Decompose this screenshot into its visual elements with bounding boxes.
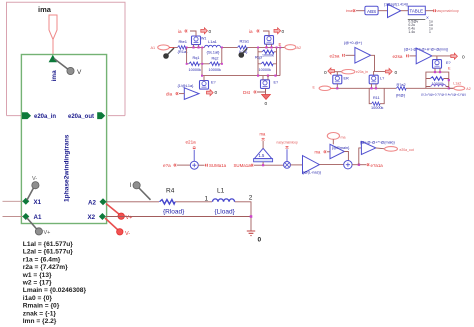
oval e20a_out [376,147,414,152]
svg-text:0: 0 [282,29,285,35]
net e20a_in arrow left 0 [324,68,368,76]
block ABS [365,6,378,15]
svg-text:L1a1: L1a1 [208,39,218,44]
port dia [166,92,184,97]
svg-text:2: 2 [249,195,253,202]
summer circle 1 [190,161,198,169]
svg-text:ma: ma [315,150,321,155]
junction dots W1 [192,46,194,48]
svg-text:{1/@L1a}: {1/@L1a} [178,84,195,88]
svg-text:{@+0-@+): {@+0-@+) [344,41,363,45]
svg-text:Lmain = {0.0246308}: Lmain = {0.0246308} [23,287,87,294]
probe V- at X1 [27,176,39,200]
svg-text:e?a: e?a [163,163,171,168]
svg-text:V+: V+ [44,230,51,236]
wire E2 top stub [203,76,205,81]
svg-text:R4: R4 [166,188,175,195]
svg-text:1: 1 [205,195,209,202]
svg-text:V: V [77,69,82,76]
ground arrow 0 (tri2) [451,53,465,60]
svg-text:R11: R11 [373,96,380,100]
svg-text:E?: E? [274,81,279,85]
ground arrow 0 (W2) [274,28,285,35]
svg-text:10000k: 10000k [259,68,272,72]
port ma input [315,150,331,155]
inductor L (RL box) [431,85,446,87]
resistor Rq1 [189,62,200,66]
port ima [346,8,355,13]
svg-text:e20a_out: e20a_out [400,148,414,152]
svg-text:0: 0 [258,237,262,244]
resistor Rq3 [262,50,274,54]
wire triangle1 out [371,55,375,71]
probe V- at X2 (red) [105,218,130,237]
probe V+ at A1 [27,218,50,236]
svg-text:Imn = {2.2}: Imn = {2.2} [23,318,57,325]
wire amp to summer2 [319,164,343,166]
wire X2 row [106,216,251,218]
svg-text:R?a2: R?a2 [397,83,406,87]
summer circle 2 [344,161,352,169]
svg-text:0: 0 [462,55,465,61]
wire W1 stubs [190,31,199,47]
limiter block [254,148,273,162]
wire Rq network left [187,47,222,75]
probe I at A2 wire [130,182,151,200]
port nasycmainloop [434,9,459,13]
svg-text:10000k: 10000k [262,53,274,57]
svg-text:V-: V- [32,176,37,182]
svg-text:{1@sqrt(1.414)}: {1@sqrt(1.414)} [384,2,409,6]
svg-text:r1a = {6.4m}: r1a = {6.4m} [23,256,61,263]
wire limiter to mult [262,162,284,165]
svg-text:{@+1-@+0-@+H^@+@(mm)}: {@+1-@+0-@+H^@+@(mm)} [404,47,449,51]
svg-text:SUMa1a: SUMa1a [234,163,252,168]
svg-text:10000k: 10000k [371,106,384,110]
inductor L1a1 [205,45,221,47]
svg-text:nasycmainloop: nasycmainloop [277,141,298,145]
ground 0 [247,231,255,236]
wire [356,10,365,12]
svg-text:L1: L1 [217,188,225,195]
svg-text:A1: A1 [34,214,42,221]
svg-text:L?: L? [380,77,384,81]
ground arrow 0 (W1) [201,28,212,35]
wire A2 row [107,202,252,231]
port A2 [88,198,107,206]
wire Rq network right [202,47,280,75]
port X2 [88,213,106,221]
svg-text:A2: A2 [466,87,470,91]
svg-text:1.5: 1.5 [259,153,265,158]
source W1 box [192,36,201,45]
svg-text:Rq1: Rq1 [193,56,200,60]
svg-text:X1: X1 [34,199,42,206]
svg-text:W1: W1 [201,37,206,41]
amp 1/Lnas triangle [303,156,322,175]
svg-text:e2sa: e2sa [330,54,340,59]
svg-text:1phase2windingtrans: 1phase2windingtrans [63,134,70,202]
port ima (top of block) [49,55,57,62]
svg-text:w2 = {17}: w2 = {17} [22,280,52,287]
wire pink outer loop [7,2,126,115]
svg-text:ABS: ABS [367,9,376,14]
resistor Rte2 [396,87,406,91]
wire W2 stubs [263,31,272,47]
probe at R2a1 (dark) [239,49,247,58]
svg-text:0: 0 [215,90,218,96]
port Dst [243,88,266,94]
port e2a [163,163,190,168]
wire triangle2 out [432,56,451,59]
svg-text:ia: ia [249,29,253,34]
junction dots main wire [186,47,281,65]
inductor L1 [213,199,235,202]
svg-text:Rq2: Rq2 [212,57,219,61]
svg-text:ma: ma [341,135,346,139]
oval ma top [327,133,345,145]
svg-text:e20a_in: e20a_in [34,114,56,120]
svg-text:nasycmainloop: nasycmainloop [436,9,459,13]
port e20a_out [97,112,105,119]
port SUMa1a out [198,163,226,168]
svg-text:w1 = {13}: w1 = {13} [22,272,52,279]
gain e2sa triangle 1 [330,41,371,63]
E3 stubs to RL box [435,68,440,72]
svg-text:SUMa1a: SUMa1a [209,163,227,168]
wire [378,10,387,12]
svg-text:e20a_in: e20a_in [356,70,368,74]
amp Rmain triangle [330,144,350,158]
wire E1 stubs [263,76,268,95]
port nasycmainloop top input [277,141,298,162]
svg-text:E?: E? [446,61,451,65]
junction dots bottom wire [257,75,259,77]
svg-text:0: 0 [209,29,212,35]
svg-text:10000k: 10000k [189,68,202,72]
multiplier circle [284,162,291,169]
port e20a_in [22,112,31,119]
svg-text:ia: ia [178,29,182,34]
gain triangle sqrt [384,2,409,17]
svg-text:X2: X2 [88,214,96,221]
port A1 oval [151,45,175,50]
svg-text:1: 1 [429,30,431,34]
junction dots RL [434,71,436,73]
resistor R4 [160,200,176,204]
svg-text:znak = {-1}: znak = {-1} [23,310,57,317]
ground arrow 0 (E5) [386,69,398,76]
svg-text:ma: ma [260,132,266,137]
svg-text:Dst: Dst [243,90,251,95]
junction dots E5 [370,87,372,89]
probe at A1 (dark) [164,48,175,59]
svg-text:Rq3: Rq3 [255,56,262,60]
svg-text:L1al = {61.577u}: L1al = {61.577u} [23,241,73,248]
svg-text:10000k: 10000k [209,68,222,72]
svg-text:ER: ER [344,77,350,81]
svg-text:E: E [279,42,282,47]
port A1 [22,213,42,221]
wire left A1 [3,216,24,218]
svg-text:e20a_out: e20a_out [68,114,94,120]
wire summer2 out [352,164,366,166]
wire main row [334,87,454,89]
probe V+ at A2 (red) [106,204,132,222]
port X1 [22,198,41,206]
ground arrow 0 (E2) [207,90,218,96]
svg-text:e21a: e21a [186,139,197,144]
probe V at top port [54,59,82,77]
wire up to emak triangle [359,148,362,165]
port A2 oval right [449,81,471,91]
svg-text:E?: E? [211,81,216,85]
svg-text:ima: ima [346,8,353,13]
resistor R11 branch [369,88,384,103]
hierarchical block 1phase2windingtrans [21,55,106,224]
gain e2sa triangle 2 [393,47,450,64]
svg-text:A1: A1 [151,46,156,50]
port in oval [319,86,334,90]
svg-text:ima: ima [38,5,52,14]
svg-text:V-: V- [125,231,130,237]
svg-text:L2al = {61.577u}: L2al = {61.577u} [23,249,73,256]
svg-text:e?a1a: e?a1a [371,163,384,168]
wire [401,10,409,12]
block TABLE [408,6,425,15]
svg-text:V+: V+ [126,215,133,221]
RL parallel box wires [426,72,449,88]
resistor R2a1 [238,46,248,50]
parameter list text [22,241,87,325]
junction dot [336,87,338,89]
port e2a1a [367,163,383,168]
svg-text:ima: ima [51,70,58,82]
source E1 box (to ground) [261,80,270,89]
svg-text:{R@}: {R@} [396,94,406,98]
source E2 box [200,81,209,90]
port ia1 [178,29,187,34]
svg-text:A2: A2 [297,46,302,50]
current probe ima funnel [49,15,57,55]
port SUMa1a in [234,163,263,168]
junction dots W2 [265,46,267,48]
svg-text:Rte1: Rte1 [179,39,188,44]
port A2 oval [285,45,301,50]
svg-text:0: 0 [395,70,398,76]
source W2 box [265,36,274,45]
junction dot [358,164,360,166]
junction node [250,215,253,218]
resistor R (RL box) [430,77,443,81]
wire left X1 [3,200,24,202]
svg-text:{@Rmain}: {@Rmain} [332,146,350,150]
svg-text:L1a2: L1a2 [453,81,461,85]
source E5 box [369,75,378,84]
svg-text:e2sa: e2sa [393,54,403,59]
svg-text:{0.2u*(@+0.7)*@-0.4u*(@+1)*@}: {0.2u*(@+0.7)*@-0.4u*(@+1)*@} [421,93,466,97]
port ima top of limiter [260,132,266,149]
wire mult to amp [290,164,302,166]
junction dot [262,164,264,166]
wire main row [174,46,285,48]
svg-text:dia: dia [166,92,173,97]
svg-text:{Rload}: {Rload} [163,209,185,216]
svg-text:TABLE: TABLE [410,9,424,14]
op-amp E1 gain [178,84,200,99]
svg-text:{@+@-@+*^@(mak)}: {@+@-@+*^@(mak)} [360,141,395,145]
resistor Rq4 [261,62,273,66]
svg-text:0: 0 [265,101,268,107]
resistor Rte1 [178,46,187,50]
wire [425,10,433,12]
svg-text:{Lload}: {Lload} [215,209,236,216]
port e21a top input [186,139,197,161]
svg-text:R2a1: R2a1 [240,39,250,44]
source E4 box [333,75,342,84]
port ia2 [249,29,259,34]
amp emak triangle [360,141,395,155]
svg-text:{SL1al}: {SL1al} [207,50,221,55]
svg-text:{@(L-nas)}: {@(L-nas)} [303,171,322,175]
svg-text:0: 0 [324,70,327,76]
source E3 box [433,60,442,69]
table values [408,15,433,34]
svg-text:i1a0 = {0}: i1a0 = {0} [23,295,53,302]
resistor Rq2 [210,62,220,66]
wire E4 stubs [336,72,338,89]
wire Rmain out to summer2 [344,152,348,161]
svg-text:Rmain = {0}: Rmain = {0} [23,303,60,310]
svg-text:1.4u: 1.4u [408,30,415,34]
ground triangle (E1) [262,94,271,99]
svg-text:A2: A2 [88,200,96,207]
wire E5 stubs + arrow net [372,71,386,88]
svg-text:r2a = {7.427m}: r2a = {7.427m} [23,264,68,271]
